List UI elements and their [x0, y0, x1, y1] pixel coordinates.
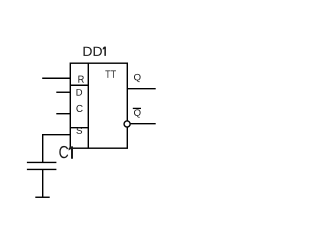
- label Q: [134, 74, 141, 82]
- pin S label: [76, 127, 82, 133]
- capacitor C1 bottom plate: [27, 168, 57, 170]
- wire : R input pin: [42, 77, 70, 79]
- pin C label: [76, 105, 82, 112]
- DD1 pin-label column divider: [87, 63, 89, 148]
- capacitor C1 top plate: [27, 161, 57, 163]
- wire : C input pin: [56, 113, 70, 115]
- wire : cell divider above S: [70, 127, 88, 129]
- ground terminal bar: [35, 196, 49, 198]
- inversion bubble on Qbar pin: [124, 121, 130, 127]
- pin R label: [78, 76, 84, 83]
- label TT: [105, 70, 116, 78]
- wire : cell divider under R: [70, 84, 88, 86]
- wire : D input pin: [56, 91, 70, 93]
- label DD1: [84, 47, 106, 56]
- overline of Qbar: [133, 107, 141, 109]
- wire : Q output: [127, 88, 155, 90]
- wire : capacitor lower lead: [42, 169, 44, 197]
- label C1: [59, 146, 73, 159]
- wire : S to capacitor C1 vertical: [42, 134, 44, 163]
- wire : S input pin horizontal: [42, 134, 70, 136]
- pin D label: [77, 89, 83, 96]
- wire : Qbar output: [131, 123, 156, 125]
- flip-flop DD1 body outline: [70, 63, 127, 148]
- label Qbar: [134, 109, 141, 117]
